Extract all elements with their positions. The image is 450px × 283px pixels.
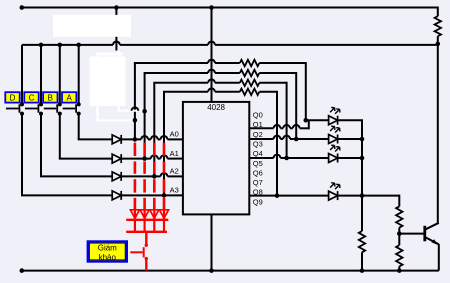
wire: emitter down to ground rail: [438, 244, 440, 271]
label box Giam khao: [88, 242, 127, 262]
wire: red column 4 (active path dashes): [163, 143, 166, 156]
wire: bottom ground rail: [22, 270, 439, 272]
svg-text:Q6: Q6: [253, 168, 263, 177]
svg-text:Q5: Q5: [253, 159, 263, 168]
node: bottom rail divider junction: [397, 268, 402, 273]
svg-text:Q0: Q0: [253, 111, 263, 120]
switch A (push contacts): [78, 45, 80, 105]
LED D6 diode symbol: [329, 135, 338, 144]
LED D5 diode symbol: [329, 116, 338, 125]
resistor R1 (top right, vertical): [435, 16, 441, 36]
wire: bundle wire 4 horizontal left part: [163, 91, 208, 93]
node: wire2/Q2 junction: [294, 137, 299, 142]
svg-text:A3: A3: [170, 186, 179, 195]
wire: switch C to row A2: [40, 114, 42, 177]
erased lead B (white): [96, 106, 99, 121]
diode D12 (red, pointing down): [163, 206, 165, 232]
switch S5 judge (red) lever: [143, 247, 145, 257]
LED D7 diode symbol: [329, 154, 338, 163]
transistor Q1 collector: [425, 223, 439, 230]
red diode cathode bar (merged): [126, 219, 168, 221]
wire: Q1 pin row with hops and jog up: [249, 127, 273, 129]
wire: second rail to switches: [22, 44, 113, 46]
wire: LED D7 cathode to common: [338, 157, 363, 159]
resistor R7 (upper divider): [396, 206, 402, 227]
node: top rail junction to IC supply wire: [209, 5, 214, 10]
svg-text:Q3: Q3: [253, 139, 263, 148]
red bottom bus bar: [126, 231, 167, 233]
node: row A1 junction to red column: [142, 156, 147, 161]
wire: base wire to transistor Q1: [399, 233, 424, 235]
LED D8 diode symbol: [329, 191, 338, 200]
node: judge switch top contact: [145, 244, 148, 247]
wire: bundle wire 4 right vertical: [276, 91, 278, 196]
wire: switch D to row A3: [21, 114, 23, 196]
resistor R2 on bundle wire 1: [240, 60, 259, 66]
wire: row A1 diode to IC pin: [121, 158, 151, 160]
node: row A0 junction to red column: [133, 137, 138, 142]
hop artifact on red column 1: [132, 107, 139, 110]
svg-text:A2: A2: [170, 167, 179, 176]
LED D6 emission arrows: [330, 127, 335, 132]
wire: LED D6 cathode to common: [338, 138, 363, 140]
wire: bundle wire 4 left vertical: [163, 92, 165, 196]
label box D: [5, 92, 19, 102]
LED D7 emission arrows: [330, 146, 335, 151]
wire: Q8 pin row: [249, 195, 277, 197]
svg-text:Q9: Q9: [253, 197, 263, 206]
svg-text:Q7: Q7: [253, 178, 263, 187]
resistor R8 (lower divider): [396, 245, 402, 266]
wire: IC ground to bottom rail: [211, 214, 213, 270]
resistor R4 on bundle wire 3: [240, 80, 259, 86]
wire: divider mid: [398, 228, 400, 246]
node: wire1/Q1 junction: [304, 118, 309, 123]
node: bottom rail LED-common junction: [360, 268, 365, 273]
wire: stub from top rail (erased branch): [115, 8, 117, 51]
node: common/LED2 junction: [360, 137, 365, 142]
diode D11 (red, pointing down): [153, 206, 155, 232]
node: row A2 junction to red column: [152, 174, 157, 179]
wire: Q8 row to divider corner: [362, 195, 399, 197]
transistor Q1 emitter with arrow: [425, 237, 439, 244]
wire: top positive supply rail: [22, 7, 438, 9]
wire: bundle wire 3 horizontal right part: [259, 82, 286, 84]
erased region (white block top): [53, 15, 131, 37]
node: common/LED3 junction: [360, 156, 365, 161]
wire: switch A to row A0: [78, 114, 80, 140]
wire: bundle wire 1 horizontal left part: [134, 62, 208, 64]
wire: R8 to ground rail: [398, 266, 400, 270]
wire: bundle wire 1 right vertical: [305, 62, 307, 120]
wire: bundle wire 2 right vertical: [295, 72, 297, 139]
diode D2 on row A1: [112, 154, 121, 163]
node: erased lead to wire2 junction: [142, 109, 147, 114]
wire: top rail corner down to resistor R1: [437, 7, 439, 17]
resistor R3 on bundle wire 2: [240, 70, 259, 76]
node: rail2-switch C junction: [39, 43, 44, 48]
wire: bundle wire 3 left vertical: [153, 83, 155, 177]
diode D3 on row A2: [112, 172, 121, 181]
svg-text:D: D: [10, 93, 16, 102]
wire: switch B to row A1: [59, 114, 61, 159]
node: row A3 junction to red column: [162, 193, 167, 198]
LED D8 emission arrows: [330, 183, 335, 188]
resistor R6 (LED common to ground): [359, 231, 365, 252]
svg-text:khảo: khảo: [99, 253, 117, 262]
wire: judge switch to ground rail: [145, 259, 147, 271]
wire: row A0 diode to IC pin: [121, 138, 141, 140]
svg-text:4028: 4028: [207, 103, 225, 112]
diode D9 (red, pointing down): [134, 206, 136, 232]
wire: bundle wire 1 horizontal right part: [259, 62, 306, 64]
wire: Q4 row to LED3 anode: [287, 157, 329, 159]
node: wire3/Q4 junction: [284, 156, 289, 161]
label box A: [62, 92, 76, 102]
wire: bundle wire 2 horizontal left part: [144, 72, 209, 74]
wire: red column 3 (active path dashes): [153, 143, 156, 156]
node: rail2-switch A junction: [76, 43, 81, 48]
erased white arrow: [96, 52, 118, 55]
wire: LED D8 cathode to common: [338, 195, 363, 197]
svg-text:C: C: [29, 93, 35, 102]
diode D4 on row A3: [112, 191, 121, 200]
label box C: [24, 92, 38, 102]
wire: Q8 row to LED4 anode: [277, 195, 329, 197]
node: erased lead to wire1 junction: [133, 118, 138, 123]
node: wire4/Q8 junction: [275, 193, 280, 198]
diode D10 (red, pointing down): [144, 206, 146, 232]
wire: bundle wire 4 horizontal right part: [259, 91, 277, 93]
wire: Q2 pin row: [249, 138, 273, 140]
node: R1 / rail2 junction: [436, 42, 441, 47]
wire: IC supply from top rail: [211, 8, 213, 102]
wire: red column 1 (active path dashes): [134, 143, 137, 156]
diode D1 on row A0: [112, 135, 121, 144]
wire: Q4 pin row: [249, 157, 273, 159]
wire: bundle wire 1 left vertical: [134, 63, 136, 139]
node: bottom rail left terminal: [20, 268, 25, 273]
node: rail2-switch B junction: [58, 43, 63, 48]
node: common/LED4 junction: [360, 193, 365, 198]
label box B: [43, 92, 57, 102]
node: top rail junction to erased branch: [114, 5, 119, 10]
wire: bundle wire 3 right vertical: [286, 82, 288, 158]
svg-text:A0: A0: [170, 130, 179, 139]
svg-text:Q4: Q4: [253, 149, 263, 158]
wire: red column 2 (active path dashes): [143, 143, 146, 156]
switch C (push contacts): [40, 45, 42, 105]
switch B (push contacts): [59, 45, 61, 105]
wire: bundle wire 2 horizontal right part: [259, 72, 296, 74]
wire: bundle wire 3 horizontal left part: [153, 82, 208, 84]
svg-text:A1: A1: [170, 149, 179, 158]
wire: LED D5 cathode to common: [338, 119, 363, 121]
erased lead A (white): [118, 105, 120, 111]
node: top rail left terminal: [20, 5, 25, 10]
wire: row A2 diode to IC pin: [121, 175, 160, 177]
switch D (push contacts): [21, 45, 23, 105]
erased component body (white block): [90, 57, 126, 107]
wire: row A3 diode to IC pin: [121, 194, 183, 196]
svg-text:Giám: Giám: [98, 244, 117, 253]
svg-text:Q2: Q2: [253, 130, 263, 139]
wire: R1 to rail2 and down to transistor collector: [437, 36, 439, 44]
LED D5 emission arrows: [330, 108, 335, 113]
transistor Q1 base bar: [423, 226, 426, 242]
wire: bundle wire 2 left vertical: [144, 73, 146, 159]
wire: LED1 row from node to anode: [306, 119, 329, 121]
svg-text:B: B: [48, 93, 53, 102]
wire: red bus to judge switch: [145, 232, 147, 245]
resistor R5 on bundle wire 4: [240, 89, 259, 95]
node: bottom rail IC-supply junction: [209, 268, 214, 273]
op-amp/IC U1 4028 decoder box: [183, 102, 249, 214]
wire: LED common cathode vertical: [361, 120, 363, 231]
node: judge switch bottom contact: [145, 257, 148, 260]
wire: Q2 row to LED2 anode: [296, 138, 328, 140]
node: divider mid / base junction: [397, 231, 402, 236]
svg-text:A: A: [67, 93, 73, 102]
